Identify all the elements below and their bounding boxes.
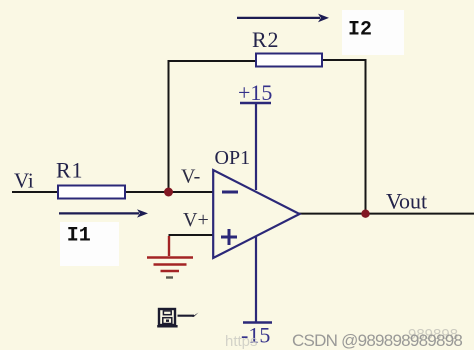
op-amp plus sign [221,229,237,245]
svg-text:CSDN @989898989898: CSDN @989898989898 [292,331,462,350]
white box behind I1 [60,222,119,266]
node: inverting input junction [164,188,173,197]
op-amp OP1 [213,170,299,258]
+15 supply bar [240,102,271,105]
bottom white strip [0,350,474,356]
svg-text:I1: I1 [67,224,91,247]
current arrow I2 [237,14,329,23]
resistor R2 [256,54,322,67]
positive supply +15 wire [255,104,257,190]
svg-text:V+: V+ [183,209,209,231]
wire: V+ input horizontal [169,234,214,236]
resistor R1 [58,186,125,199]
white box behind I2 [342,10,404,55]
wire: R1 to inverting input node [125,191,213,193]
ground small mark [166,276,173,278]
svg-text:R2: R2 [252,27,279,52]
svg-text:I2: I2 [348,18,372,41]
negative supply -15 wire [255,236,257,322]
svg-text:R1: R1 [56,158,83,183]
ground [147,236,193,271]
figure label 圖 glyph [157,309,177,326]
wire: output to right edge [299,213,474,215]
figure label dash arrow [178,313,199,317]
svg-text:Vi: Vi [14,169,34,193]
svg-text:OP1: OP1 [215,147,251,169]
svg-text:https: https [225,333,258,350]
node: output junction [361,210,369,218]
svg-text:V-: V- [181,166,200,188]
wire: Vi input to R1 [12,191,58,193]
-15 supply bar [243,321,272,324]
wire: feedback left vertical and top horizontal to R2 [169,61,257,192]
wire: R2 right to output node [322,60,366,214]
current arrow I1 [59,209,148,217]
svg-text:Vout: Vout [386,189,427,214]
op-amp minus sign [222,191,238,194]
svg-text:+15: +15 [238,80,272,105]
